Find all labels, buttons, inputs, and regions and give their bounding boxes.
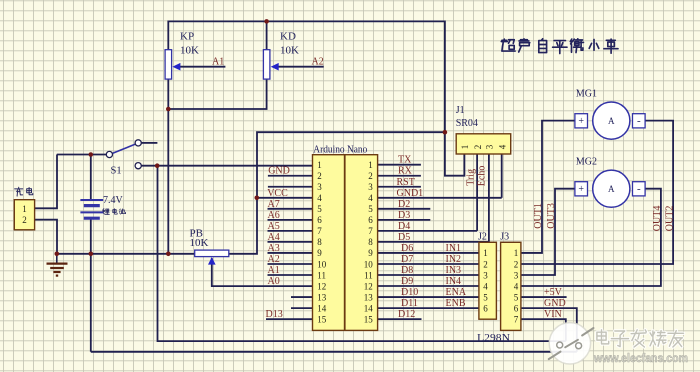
- svg-text:D8: D8: [401, 265, 413, 276]
- svg-text:Arduino Nano: Arduino Nano: [313, 144, 367, 155]
- svg-text:MG1: MG1: [576, 89, 597, 100]
- svg-text:D4: D4: [398, 221, 410, 232]
- svg-text:8: 8: [317, 237, 322, 247]
- svg-text:5: 5: [368, 204, 373, 214]
- svg-text:1: 1: [317, 160, 322, 170]
- svg-text:MG2: MG2: [576, 157, 597, 168]
- svg-text:2: 2: [22, 215, 27, 225]
- svg-text:6: 6: [483, 303, 488, 313]
- svg-text:10K: 10K: [180, 45, 199, 57]
- svg-text:10: 10: [364, 259, 374, 269]
- svg-text:2: 2: [317, 171, 322, 181]
- svg-text:OUT1: OUT1: [533, 203, 544, 229]
- svg-text:1: 1: [483, 248, 488, 258]
- svg-text:2: 2: [473, 145, 483, 150]
- svg-text:7: 7: [368, 226, 373, 236]
- svg-text:8: 8: [368, 237, 373, 247]
- svg-text:4: 4: [317, 193, 322, 203]
- svg-text:RST: RST: [397, 177, 415, 188]
- svg-text:5: 5: [514, 292, 519, 302]
- svg-text:12: 12: [364, 281, 373, 291]
- svg-text:15: 15: [364, 314, 374, 324]
- svg-text:3: 3: [368, 182, 373, 192]
- svg-text:IN3: IN3: [446, 265, 462, 276]
- svg-text:A1: A1: [212, 57, 224, 68]
- svg-text:Echo: Echo: [476, 166, 487, 187]
- svg-text:A5: A5: [268, 221, 280, 232]
- svg-text:A: A: [608, 116, 615, 126]
- svg-text:OUT2: OUT2: [664, 206, 675, 232]
- svg-text:Trig: Trig: [465, 169, 476, 186]
- svg-text:GND: GND: [544, 298, 566, 309]
- svg-text:15: 15: [317, 314, 327, 324]
- svg-text:RX: RX: [398, 166, 413, 177]
- svg-text:J3: J3: [500, 232, 509, 243]
- svg-text:GND1: GND1: [397, 188, 424, 199]
- svg-text:10K: 10K: [280, 45, 299, 57]
- svg-text:J2: J2: [478, 232, 487, 243]
- svg-text:L298N: L298N: [477, 333, 510, 344]
- svg-text:A2: A2: [312, 57, 324, 68]
- svg-text:D3: D3: [398, 210, 410, 221]
- svg-text:A0: A0: [268, 276, 280, 287]
- svg-text:-: -: [637, 183, 641, 195]
- svg-text:KP: KP: [180, 31, 194, 43]
- svg-text:7: 7: [317, 226, 322, 236]
- svg-text:GND: GND: [268, 166, 290, 177]
- svg-text:5: 5: [483, 292, 488, 302]
- svg-text:D13: D13: [266, 309, 283, 320]
- svg-text:9: 9: [317, 248, 322, 258]
- svg-text:D10: D10: [401, 287, 418, 298]
- svg-text:A7: A7: [268, 199, 280, 210]
- svg-text:5: 5: [317, 204, 322, 214]
- svg-text:IN2: IN2: [446, 254, 462, 265]
- svg-text:12: 12: [317, 281, 326, 291]
- svg-text:SR04: SR04: [456, 118, 478, 129]
- svg-text:ENB: ENB: [446, 298, 466, 309]
- svg-text:3: 3: [483, 270, 488, 280]
- svg-text:IN1: IN1: [446, 243, 462, 254]
- svg-text:www.elecfans.com: www.elecfans.com: [593, 351, 688, 365]
- svg-text:11: 11: [317, 270, 326, 280]
- svg-text:KD: KD: [280, 31, 296, 43]
- svg-text:D5: D5: [398, 232, 410, 243]
- svg-text:D2: D2: [398, 199, 410, 210]
- svg-text:14: 14: [364, 303, 374, 313]
- svg-text:D9: D9: [401, 276, 413, 287]
- svg-text:VIN: VIN: [544, 309, 562, 320]
- svg-text:1: 1: [460, 145, 470, 150]
- svg-text:13: 13: [317, 292, 327, 302]
- svg-text:D11: D11: [401, 298, 418, 309]
- svg-text:3: 3: [485, 144, 495, 149]
- svg-text:3: 3: [514, 270, 519, 280]
- svg-text:IN4: IN4: [446, 276, 462, 287]
- svg-text:4: 4: [483, 281, 488, 291]
- svg-text:TX: TX: [398, 155, 412, 166]
- svg-text:A3: A3: [268, 243, 280, 254]
- svg-text:3: 3: [317, 182, 322, 192]
- svg-text:2: 2: [514, 259, 519, 269]
- svg-text:A2: A2: [268, 254, 280, 265]
- svg-text:2: 2: [368, 171, 373, 181]
- svg-text:D12: D12: [398, 309, 415, 320]
- svg-text:A6: A6: [268, 210, 280, 221]
- svg-text:2: 2: [483, 259, 488, 269]
- svg-text:6: 6: [368, 215, 373, 225]
- svg-text:11: 11: [364, 270, 373, 280]
- svg-text:4: 4: [514, 281, 519, 291]
- svg-text:D6: D6: [401, 243, 413, 254]
- svg-text:4: 4: [498, 144, 508, 149]
- svg-text:OUT4: OUT4: [652, 206, 663, 232]
- svg-text:OUT3: OUT3: [546, 203, 557, 229]
- svg-text:14: 14: [317, 303, 327, 313]
- svg-text:6: 6: [514, 303, 519, 313]
- svg-text:1: 1: [514, 248, 519, 258]
- svg-text:6: 6: [317, 215, 322, 225]
- svg-text:VCC: VCC: [267, 188, 288, 199]
- svg-text:4: 4: [368, 193, 373, 203]
- svg-text:13: 13: [364, 292, 374, 302]
- svg-text:7: 7: [514, 314, 519, 324]
- svg-text:A1: A1: [268, 265, 280, 276]
- svg-text:-: -: [637, 115, 641, 127]
- svg-text:A: A: [608, 184, 615, 194]
- svg-text:+: +: [578, 116, 584, 127]
- svg-text:+: +: [578, 184, 584, 195]
- svg-text:D7: D7: [401, 254, 413, 265]
- svg-text:S1: S1: [111, 166, 122, 177]
- svg-text:9: 9: [368, 248, 373, 258]
- svg-text:J1: J1: [456, 105, 465, 116]
- svg-text:+5V: +5V: [544, 287, 563, 298]
- svg-text:10: 10: [317, 259, 327, 269]
- svg-text:10K: 10K: [190, 237, 209, 249]
- svg-text:7.4V: 7.4V: [103, 195, 124, 206]
- svg-text:A4: A4: [268, 232, 280, 243]
- svg-text:ENA: ENA: [446, 287, 467, 298]
- svg-text:1: 1: [368, 160, 373, 170]
- svg-text:1: 1: [22, 204, 27, 214]
